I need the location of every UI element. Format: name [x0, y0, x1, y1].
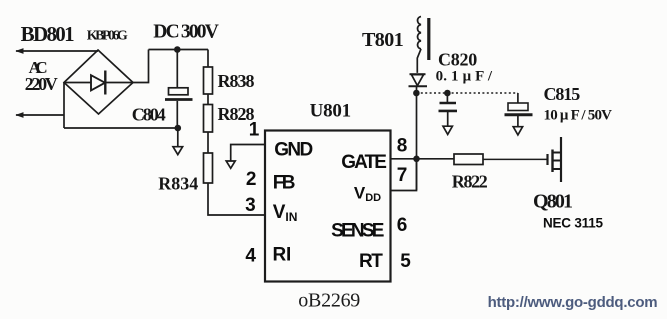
svg-text:Q801: Q801	[533, 190, 573, 212]
node: VDD rail top junction	[413, 90, 420, 97]
wire: R838 to R828	[207, 94, 209, 105]
wire: bridge right corner to DC rail	[133, 50, 149, 83]
svg-text:0. 1 μ F /: 0. 1 μ F /	[436, 69, 493, 85]
svg-text:DC 300V: DC 300V	[153, 22, 219, 43]
wire: dotted VDD rail to C820 C815	[416, 92, 518, 94]
resistor R834	[204, 153, 213, 183]
wire: R834 to pin 3 VIN	[208, 183, 265, 215]
svg-text:GND: GND	[274, 140, 313, 161]
svg-text:5: 5	[400, 251, 411, 272]
wire: VDD vertical T801 to pin 7	[416, 86, 418, 190]
wire: R828 to R834	[207, 132, 209, 153]
capacitor C815	[505, 93, 533, 135]
svg-text:4: 4	[245, 246, 256, 267]
op-amp U801 IC box	[265, 131, 391, 282]
node: C820 junction	[444, 90, 451, 97]
svg-text:T801: T801	[362, 29, 404, 51]
resistor R838	[204, 67, 213, 94]
svg-text:220V: 220V	[25, 74, 58, 94]
wire: DC rail to R838	[207, 50, 209, 68]
svg-text:3: 3	[245, 195, 256, 216]
AC input line bottom	[15, 112, 64, 118]
pin 1 GND wire	[231, 145, 265, 162]
svg-text:C820: C820	[438, 50, 477, 70]
wire: bottom rail	[64, 127, 178, 129]
svg-text:SENSE: SENSE	[331, 221, 384, 242]
capacitor C820	[439, 93, 458, 134]
bridge rectifier BD801	[64, 50, 133, 114]
svg-text:VDD: VDD	[354, 184, 381, 205]
wire: R822 to Q801 gate	[483, 158, 547, 160]
svg-text:6: 6	[397, 215, 408, 236]
svg-text:oB2269: oB2269	[298, 290, 360, 312]
svg-text:R838: R838	[218, 71, 255, 91]
svg-text:C815: C815	[544, 84, 581, 104]
capacitor C804	[165, 50, 193, 129]
svg-text:http://www.go-gddq.com: http://www.go-gddq.com	[488, 294, 658, 311]
resistor R822	[454, 154, 483, 165]
svg-text:R822: R822	[452, 171, 488, 191]
wire: bridge left corner down	[63, 83, 65, 129]
svg-text:BD801: BD801	[21, 22, 75, 46]
svg-text:7: 7	[397, 165, 408, 186]
svg-text:U801: U801	[310, 101, 352, 122]
svg-text:GATE: GATE	[341, 152, 387, 173]
svg-text:NEC 3115: NEC 3115	[543, 216, 603, 231]
svg-text:10 μ F / 50V: 10 μ F / 50V	[544, 108, 613, 124]
pin 8 GATE wire	[391, 158, 455, 160]
pin 7 VDD wire	[391, 159, 417, 191]
AC input line top	[15, 48, 98, 54]
svg-text:VIN: VIN	[273, 202, 298, 224]
svg-text:1: 1	[249, 120, 260, 141]
diode: T801 to VDD rail	[409, 74, 428, 86]
resistor R828	[204, 105, 213, 133]
svg-text:C804: C804	[132, 105, 166, 125]
transformer T801 winding	[417, 17, 429, 73]
transistor Q801 MOSFET	[548, 137, 562, 182]
ground arrow below C804	[173, 128, 183, 155]
node: DC rail C804 junction	[174, 46, 181, 53]
svg-text:FB: FB	[273, 173, 296, 194]
svg-text:RT: RT	[359, 251, 383, 272]
wire: DC 300V rail	[149, 49, 209, 51]
node: GATE VDD junction	[413, 156, 420, 163]
ground arrow at pin 1	[226, 161, 235, 168]
svg-text:8: 8	[397, 136, 408, 157]
svg-text:R834: R834	[158, 174, 198, 194]
node: bottom rail C804 junction	[175, 125, 182, 132]
svg-text:KBP06G: KBP06G	[87, 29, 128, 44]
svg-text:RI: RI	[273, 245, 292, 266]
svg-text:2: 2	[246, 169, 257, 190]
